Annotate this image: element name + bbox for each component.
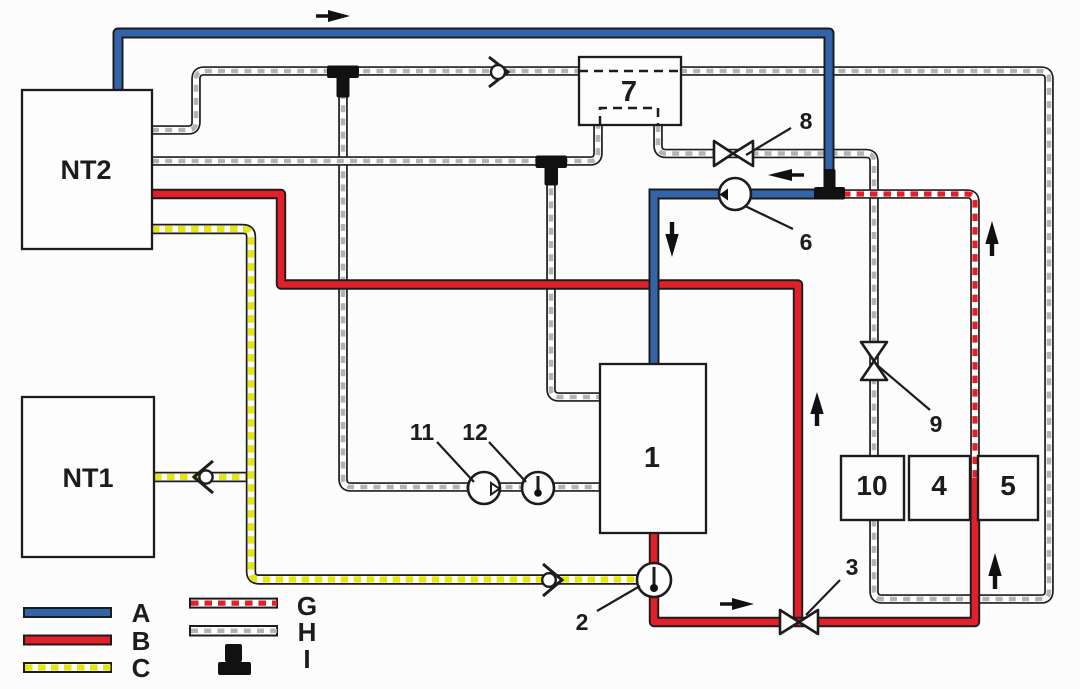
arrow right on top blue line (316, 10, 350, 22)
wire B red from box 1 bottom through pump 2, valve 3 to boxes 4/5 (654, 478, 975, 622)
svg-text:3: 3 (846, 554, 859, 580)
svg-text:NT2: NT2 (60, 155, 111, 185)
check valve on bottom yellow line (542, 564, 562, 596)
wire H main loop: NT2 stub, top run, right edge down, bottom right run, up to box10 (152, 71, 1049, 599)
pump 2 (576, 563, 671, 635)
valve 8 (714, 108, 813, 166)
legend I tee symbol (218, 644, 311, 675)
legend A blue (24, 598, 151, 628)
svg-text:A: A (132, 598, 151, 628)
arrow down beside blue vertical (665, 222, 678, 257)
temperature sensor 12 (462, 419, 554, 504)
box 4 (909, 456, 970, 520)
arrow up beside G line (985, 221, 998, 256)
tee junction I (T3) blue/G junction, stem up (814, 169, 845, 200)
check valve on top gray line (489, 57, 508, 87)
legend H gray/white (190, 617, 316, 647)
tee junction I (T2) on second gray line (536, 156, 568, 186)
svg-text:4: 4 (931, 470, 947, 501)
svg-text:H: H (298, 617, 317, 647)
svg-text:B: B (132, 626, 151, 656)
svg-text:I: I (303, 644, 310, 674)
box 5 (978, 456, 1038, 520)
wire A blue from tee T3 left through pump 6 down into box 1 (654, 194, 816, 364)
arrow left above pump 6 (768, 169, 804, 181)
wire C yellow from NT1 to vertical (154, 472, 251, 482)
svg-text:6: 6 (800, 229, 813, 255)
check valve on NT1 yellow line (194, 461, 213, 493)
box 1 (600, 364, 706, 533)
tee junction I (T1) on top gray line (327, 66, 359, 98)
wire H branch from tee T2 down into box 1 left (551, 175, 600, 397)
svg-text:12: 12 (462, 419, 488, 445)
wire H second line from NT2 to box 7 left port (152, 125, 598, 161)
valve 9 (861, 342, 942, 437)
legend C yellow (24, 653, 151, 683)
wire B red from NT2 right around to valve 3 (152, 194, 798, 618)
wire H branch from tee T1 down to pump 11 line into box 1 (343, 92, 600, 487)
svg-text:NT1: NT1 (62, 463, 113, 493)
pump 11 (410, 419, 500, 504)
legend B red (24, 626, 150, 656)
pump 6 (719, 178, 812, 255)
wire C yellow from NT2 down and to pump 2 (152, 229, 640, 580)
wire H from box 7 right port through valve 8 down through valve 9 to box 10 (658, 125, 874, 460)
arrow up beside red vertical (810, 392, 823, 426)
svg-text:8: 8 (800, 108, 813, 134)
svg-text:5: 5 (1000, 470, 1016, 501)
svg-text:1: 1 (644, 442, 660, 474)
wire G red/white dashed from tee T3 to boxes 4/5 (843, 194, 975, 485)
box NT1 (22, 397, 154, 557)
legend G red/white (190, 591, 317, 621)
svg-text:7: 7 (621, 76, 637, 108)
svg-text:2: 2 (576, 609, 589, 635)
valve 3 (780, 554, 858, 634)
wire A blue from NT2 top over to tee T3 (118, 33, 829, 174)
box 10 (841, 456, 904, 520)
svg-text:9: 9 (930, 411, 943, 437)
box NT2 (22, 90, 152, 249)
svg-text:C: C (132, 653, 151, 683)
box 7 with dashed interior (579, 57, 681, 125)
svg-text:10: 10 (856, 470, 887, 501)
arrow up bottom right red (988, 553, 1001, 589)
svg-text:11: 11 (410, 419, 435, 445)
arrow right on bottom red line (720, 598, 754, 610)
